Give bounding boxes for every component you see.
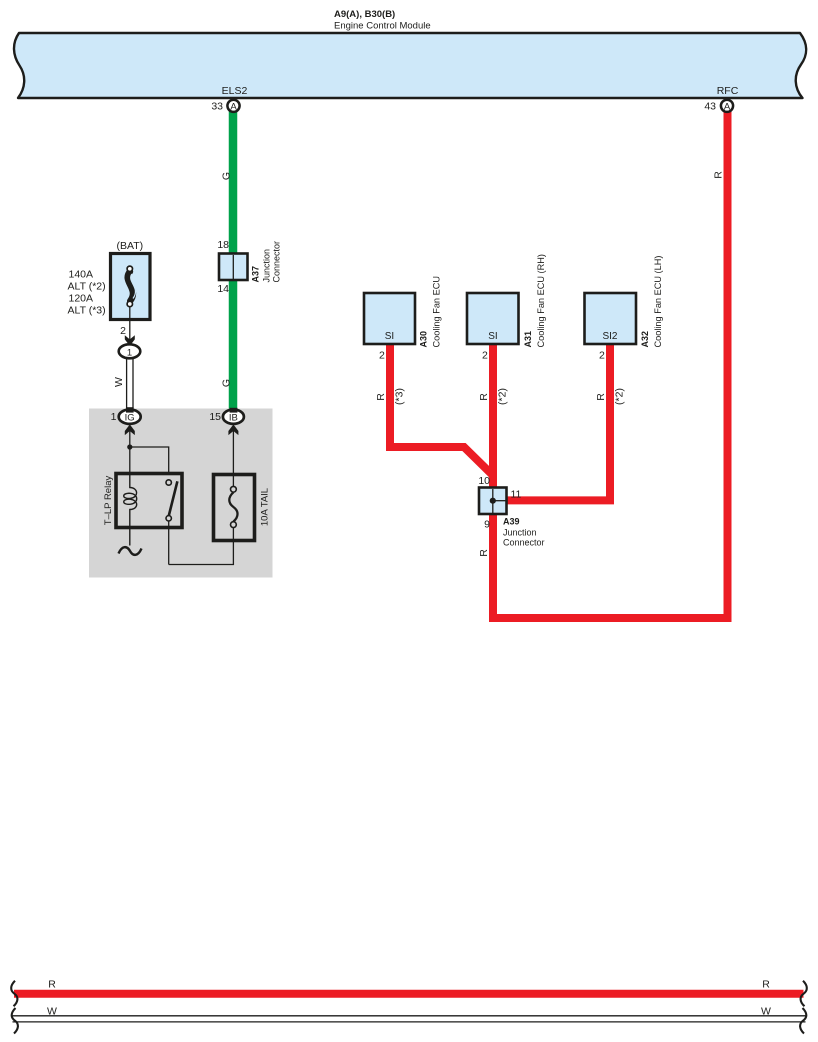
svg-text:A: A [230, 101, 237, 112]
svg-text:R: R [713, 171, 725, 179]
svg-text:(*3): (*3) [393, 388, 405, 405]
svg-text:A9(A), B30(B): A9(A), B30(B) [334, 9, 395, 20]
svg-text:18: 18 [217, 239, 229, 251]
svg-text:(*2): (*2) [496, 388, 508, 405]
svg-text:T–LP Relay: T–LP Relay [103, 476, 114, 526]
svg-text:Engine Control Module: Engine Control Module [334, 21, 431, 32]
svg-text:Cooling Fan ECU: Cooling Fan ECU [432, 276, 442, 348]
svg-text:(BAT): (BAT) [116, 240, 143, 252]
svg-text:R: R [375, 393, 387, 401]
svg-text:R: R [595, 393, 607, 401]
svg-text:W: W [113, 377, 125, 387]
svg-text:ELS2: ELS2 [222, 85, 248, 97]
svg-text:A39: A39 [503, 517, 520, 527]
svg-text:11: 11 [511, 489, 522, 501]
svg-text:G: G [221, 172, 233, 180]
svg-text:R: R [762, 979, 770, 991]
svg-text:W: W [761, 1005, 771, 1017]
svg-text:IB: IB [229, 412, 238, 423]
svg-text:(*2): (*2) [613, 388, 625, 405]
svg-text:SI2: SI2 [602, 331, 617, 342]
svg-text:Junction: Junction [503, 528, 537, 538]
svg-text:IG: IG [125, 412, 135, 423]
svg-text:Junction: Junction [262, 249, 272, 283]
svg-text:43: 43 [704, 100, 716, 112]
svg-text:14: 14 [217, 283, 229, 295]
svg-text:15: 15 [209, 411, 221, 423]
svg-text:Connector: Connector [272, 241, 282, 283]
svg-text:R: R [478, 393, 490, 401]
svg-text:SI: SI [385, 331, 394, 342]
svg-text:2: 2 [482, 349, 488, 361]
svg-text:Connector: Connector [503, 538, 545, 548]
svg-text:2: 2 [379, 349, 385, 361]
svg-text:SI: SI [488, 331, 497, 342]
svg-text:120A: 120A [69, 293, 94, 305]
svg-text:10: 10 [478, 475, 490, 487]
svg-text:Cooling Fan ECU (RH): Cooling Fan ECU (RH) [536, 254, 546, 347]
svg-text:Cooling Fan ECU (LH): Cooling Fan ECU (LH) [653, 256, 663, 348]
svg-text:R: R [478, 549, 490, 557]
svg-text:A: A [724, 101, 731, 112]
svg-text:A32: A32 [640, 331, 650, 348]
svg-text:A31: A31 [523, 331, 533, 348]
svg-text:A37: A37 [251, 266, 261, 283]
svg-text:10A TAIL: 10A TAIL [260, 488, 271, 526]
svg-text:1: 1 [127, 347, 132, 358]
svg-text:2: 2 [599, 349, 605, 361]
svg-text:R: R [48, 979, 56, 991]
svg-text:140A: 140A [69, 269, 94, 281]
svg-text:W: W [47, 1005, 57, 1017]
svg-text:A30: A30 [419, 331, 429, 348]
svg-text:RFC: RFC [717, 85, 739, 97]
svg-text:33: 33 [211, 100, 223, 112]
svg-text:G: G [221, 379, 233, 387]
svg-text:2: 2 [120, 325, 126, 337]
svg-text:9: 9 [484, 519, 490, 531]
svg-text:1: 1 [111, 411, 117, 423]
svg-text:ALT (*3): ALT (*3) [68, 305, 106, 317]
svg-text:ALT (*2): ALT (*2) [68, 281, 106, 293]
